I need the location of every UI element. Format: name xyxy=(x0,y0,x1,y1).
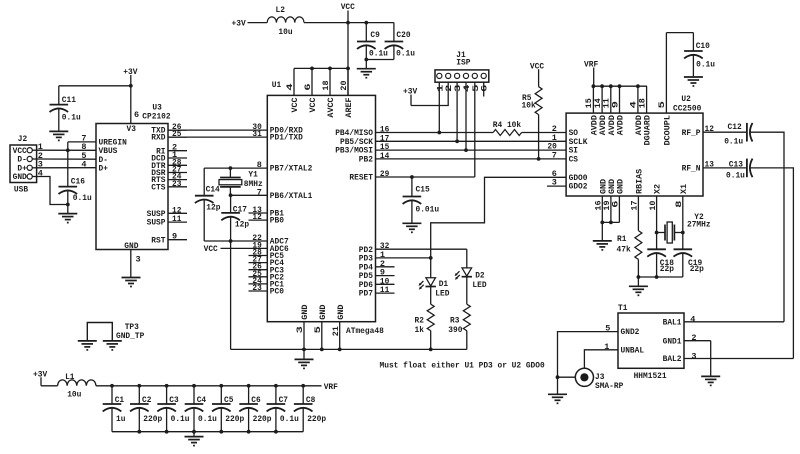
svg-text:6: 6 xyxy=(134,110,139,120)
svg-text:0.1u: 0.1u xyxy=(696,60,715,70)
crystal Y2 xyxy=(657,212,711,243)
svg-text:AVDD: AVDD xyxy=(609,115,617,136)
pin 4 D+ (U3) name xyxy=(81,160,108,174)
pin 6 GDO0 (U2) xyxy=(552,169,588,183)
node C9 bottom junction xyxy=(364,58,368,62)
capacitor C16 xyxy=(59,150,92,213)
capacitor C19 xyxy=(674,249,704,277)
node Y2 rail junctions xyxy=(637,275,659,279)
capacitor C12 xyxy=(724,122,752,146)
node J1.1 junction xyxy=(437,131,441,135)
svg-text:C8: C8 xyxy=(306,395,315,405)
svg-text:5: 5 xyxy=(659,101,667,109)
svg-text:HHM1521: HHM1521 xyxy=(634,371,667,381)
svg-text:GND: GND xyxy=(13,172,27,182)
node C7 top junction xyxy=(274,384,278,388)
transformer T1 box (HHM1521) xyxy=(618,313,684,368)
svg-text:PC0: PC0 xyxy=(270,287,284,297)
pin 2 GND1 (T1) xyxy=(663,333,697,346)
wire XTAL2 net xyxy=(204,168,267,196)
node bypass rail junctions xyxy=(137,430,277,434)
svg-text:5: 5 xyxy=(473,84,481,92)
wire C12 to BAL1 xyxy=(750,132,784,322)
svg-text:PD7: PD7 xyxy=(359,289,373,299)
pin 17 RBIAS (U2) bottom xyxy=(632,168,645,210)
svg-text:VRF: VRF xyxy=(584,60,598,70)
node PD3-GDO0-D1 junction xyxy=(429,256,433,260)
wire VBUS net (J2.1 - U3.8) xyxy=(37,149,96,151)
svg-text:10u: 10u xyxy=(67,390,81,400)
svg-text:C9: C9 xyxy=(370,30,379,40)
pin 7 PB6/XTAL1 (U1) xyxy=(257,187,313,201)
pin 5 GND2 (T1) xyxy=(605,324,639,338)
pin 14 AVDD (U2) top xyxy=(595,86,608,135)
node VBUS junction xyxy=(66,148,70,152)
pin 5 GND (U1) bottom xyxy=(315,304,328,349)
pin 30 PD0/RXD (U1) xyxy=(252,122,302,136)
pin 9 AVDD (U2) top xyxy=(612,86,625,135)
wire +3V to L2 xyxy=(248,22,268,24)
svg-text:1: 1 xyxy=(437,84,445,92)
label U3 pin V3 name xyxy=(127,124,136,134)
pin 25 PC2 (U1) xyxy=(249,269,285,283)
node top bus junctions xyxy=(310,67,350,71)
power VRF (rail) xyxy=(324,382,338,392)
pin 20 AREF (U1) top xyxy=(341,68,354,117)
wire D- net xyxy=(37,158,96,160)
svg-text:CC2500: CC2500 xyxy=(673,104,701,114)
connector J1 box (ISP) xyxy=(435,50,489,82)
svg-text:7: 7 xyxy=(552,151,557,161)
capacitor C20 xyxy=(385,23,415,60)
pin 13 PB1 (U1) xyxy=(249,205,285,219)
node R5 to CS junction xyxy=(537,157,541,161)
svg-text:GND: GND xyxy=(302,304,310,319)
wire PD3 net xyxy=(376,257,431,259)
svg-text:C2: C2 xyxy=(142,395,151,405)
svg-text:11: 11 xyxy=(172,214,181,224)
resistor R1 (RBIAS) xyxy=(617,196,642,277)
pin 9 PD5 (U1) xyxy=(359,268,395,282)
svg-text:1: 1 xyxy=(604,342,609,352)
pin 21 GND (U1) bottom xyxy=(333,304,346,349)
capacitor C2 xyxy=(130,386,162,432)
wire U1 VCC top bus xyxy=(294,67,348,69)
svg-text:GND_TP: GND_TP xyxy=(116,331,144,341)
svg-text:PB0: PB0 xyxy=(270,216,284,226)
pin 1 (J1) xyxy=(437,73,446,92)
wire J1.4 to MOSI xyxy=(465,82,467,150)
svg-text:0.1u: 0.1u xyxy=(724,136,743,146)
svg-text:4: 4 xyxy=(287,83,295,91)
pin 5 D- (U3) name xyxy=(81,151,108,165)
pin 6 GND (U2) bottom xyxy=(613,179,626,208)
svg-text:22p: 22p xyxy=(690,264,704,274)
svg-text:2: 2 xyxy=(446,84,454,92)
label U1 refdes xyxy=(272,80,281,90)
wire D+ net xyxy=(37,167,96,169)
wire GND2 route xyxy=(558,332,619,378)
capacitor C5 xyxy=(212,386,244,432)
wire J1.6 stub xyxy=(483,82,485,96)
inductor L2 xyxy=(267,5,304,37)
node AVDD bus junctions xyxy=(592,84,640,88)
capacitor C17 xyxy=(221,195,249,241)
power VCC (top) xyxy=(341,2,355,23)
svg-text:220p: 220p xyxy=(307,414,326,424)
svg-text:14: 14 xyxy=(595,98,603,108)
svg-text:+3V: +3V xyxy=(232,19,247,29)
wire U1 ground rail xyxy=(231,348,467,350)
pin 28 PC5 (U1) xyxy=(249,248,285,262)
svg-text:C17: C17 xyxy=(233,204,247,214)
svg-text:11: 11 xyxy=(604,98,612,108)
svg-text:GND1: GND1 xyxy=(663,336,682,346)
node C6 top junction xyxy=(247,384,251,388)
pin 25 RXD (U3) stub xyxy=(151,129,187,143)
pin 2 D- (J2) xyxy=(17,151,43,165)
svg-text:0.1u: 0.1u xyxy=(198,414,217,424)
resistor R2 xyxy=(415,287,435,349)
svg-text:C20: C20 xyxy=(396,30,410,40)
svg-text:0.1u: 0.1u xyxy=(171,414,190,424)
ground (U2 GND pins) xyxy=(593,241,612,250)
pin 12 SUSP (U3) stub xyxy=(147,205,187,219)
svg-text:9: 9 xyxy=(172,232,177,242)
node GND2/J3 junction xyxy=(556,375,560,379)
connector J2 box xyxy=(10,134,37,195)
pin 3 D+ (J2) xyxy=(17,160,43,174)
svg-text:RESET: RESET xyxy=(349,173,373,183)
ground (U1) xyxy=(295,349,314,368)
wire U2 GND pins xyxy=(602,196,619,241)
svg-text:DCOUPL: DCOUPL xyxy=(665,115,673,146)
svg-text:10u: 10u xyxy=(278,27,292,37)
pin 6 (J1) xyxy=(481,73,490,92)
op-amp U1 box (ATmega48) xyxy=(267,95,375,321)
wire X2 down xyxy=(656,196,658,249)
wire +3V to J1.2 xyxy=(411,82,448,105)
svg-text:18: 18 xyxy=(639,98,647,108)
power +3V (L2 input) xyxy=(232,19,247,29)
svg-text:L2: L2 xyxy=(276,5,285,15)
svg-text:VRF: VRF xyxy=(324,382,338,392)
wire PD2 net to D2 xyxy=(376,249,467,268)
node U2 GND junctions xyxy=(600,221,612,225)
svg-text:6: 6 xyxy=(482,84,490,92)
svg-text:10k: 10k xyxy=(522,101,536,111)
svg-text:SUSP: SUSP xyxy=(147,218,166,228)
svg-text:PB7/XTAL2: PB7/XTAL2 xyxy=(270,164,313,174)
svg-text:RXD: RXD xyxy=(151,133,165,143)
svg-text:T1: T1 xyxy=(618,303,627,313)
wire MISO net (R4 - U2.SO) xyxy=(522,132,567,134)
svg-text:12p: 12p xyxy=(235,220,249,230)
pin 15 PB3/MOSI (U1) xyxy=(335,142,389,156)
svg-text:PB2: PB2 xyxy=(359,155,373,165)
wire C20 bottom to C9 ground xyxy=(366,59,394,61)
node VCC junction xyxy=(346,21,350,25)
pin 23 PC0 (U1) xyxy=(249,283,285,297)
pin 6 VCC (U1) top xyxy=(305,68,318,112)
wire bypass ground rail xyxy=(112,431,303,433)
inductor L1 xyxy=(58,372,96,400)
resistor R3 xyxy=(448,277,470,349)
pin 19 GND (U2) bottom xyxy=(604,179,617,211)
svg-text:21: 21 xyxy=(333,326,341,336)
pin 1 SCLK (U2) xyxy=(552,133,589,147)
svg-text:GND: GND xyxy=(618,179,626,194)
capacitor C9 xyxy=(357,23,388,69)
svg-text:5: 5 xyxy=(315,326,323,334)
pin 29 RESET (U1) xyxy=(349,169,389,183)
svg-text:0.1u: 0.1u xyxy=(369,48,388,58)
capacitor C18 xyxy=(647,249,674,277)
capacitor C6 xyxy=(239,386,271,432)
ground (TP3 left) xyxy=(78,341,97,350)
svg-text:R1: R1 xyxy=(617,234,626,244)
svg-text:V3: V3 xyxy=(127,124,136,134)
wire ADC7 ground net xyxy=(204,240,267,242)
pin 5 (J1) xyxy=(472,73,481,92)
svg-text:RBIAS: RBIAS xyxy=(637,168,645,194)
wire to J3 xyxy=(558,376,576,378)
svg-text:0.1u: 0.1u xyxy=(280,414,299,424)
svg-text:SMA-RP: SMA-RP xyxy=(595,381,623,391)
pin 16 GND (U2) bottom xyxy=(596,179,609,211)
svg-text:C11: C11 xyxy=(62,95,76,105)
svg-text:C1: C1 xyxy=(115,395,124,405)
svg-text:3: 3 xyxy=(297,326,305,334)
node C9 top junction xyxy=(364,21,368,25)
power +3V (to U3 V3) xyxy=(123,67,138,86)
label T1 refdes xyxy=(618,303,667,381)
wire UNBAL route xyxy=(584,350,618,368)
wire rail to ground xyxy=(193,432,195,437)
svg-text:C4: C4 xyxy=(197,395,206,405)
capacitor C7 xyxy=(267,386,299,432)
pin 1 UNBAL (T1) xyxy=(604,342,644,355)
svg-text:UNBAL: UNBAL xyxy=(621,345,645,355)
pin 12 RF_P (U2) xyxy=(682,124,714,138)
svg-text:1u: 1u xyxy=(116,414,125,424)
pin 26 TXD (U3) stub xyxy=(151,122,187,136)
wire L2 to VCC node xyxy=(304,22,348,24)
wire VRF rail xyxy=(96,385,322,387)
pin 16 PB4/MISO (U1) xyxy=(335,125,389,139)
resistor R4 xyxy=(493,120,522,135)
capacitor C15 xyxy=(403,177,440,223)
svg-text:GND: GND xyxy=(600,179,608,194)
node C5 top junction xyxy=(219,384,223,388)
node ground rail junctions xyxy=(302,348,433,352)
power VCC (R5) xyxy=(530,61,544,71)
pin 11 SUSP (U3) stub xyxy=(147,214,187,228)
pin 3 GDO2 (U2) xyxy=(552,178,588,192)
svg-text:1k: 1k xyxy=(415,325,424,335)
svg-text:RF_N: RF_N xyxy=(682,164,701,174)
pin 7 CS (U2) xyxy=(552,151,578,165)
capacitor C8 xyxy=(294,386,326,432)
svg-text:CP2102: CP2102 xyxy=(142,111,170,121)
label U2 refdes xyxy=(673,94,701,113)
svg-text:C12: C12 xyxy=(728,122,742,132)
wire J1.1 to MISO xyxy=(438,82,440,132)
wire RF_P to C12 xyxy=(703,131,747,133)
svg-text:GDO2: GDO2 xyxy=(569,182,588,192)
pin 27 PC4 (U1) xyxy=(249,255,285,269)
wire DCOUPL to C10 xyxy=(666,32,693,34)
wire XTAL1 net xyxy=(231,194,268,196)
pin 4 GND (J2) xyxy=(13,168,43,182)
pin 1 VCC (J2) xyxy=(13,142,43,156)
test point TP3 xyxy=(87,322,144,341)
pin 3 (J1) xyxy=(455,73,464,92)
svg-text:AVDD: AVDD xyxy=(592,115,600,136)
svg-text:AVCC: AVCC xyxy=(328,97,336,118)
pin 24 PC1 (U1) xyxy=(249,276,285,290)
svg-text:220p: 220p xyxy=(143,414,162,424)
wire AVDD top bus xyxy=(594,85,647,87)
wire J1.3 to SCK xyxy=(456,82,458,141)
svg-text:C10: C10 xyxy=(696,41,710,51)
svg-text:VCC: VCC xyxy=(292,97,300,112)
svg-text:AVDD: AVDD xyxy=(618,115,626,136)
pin 10 X2 (U2) bottom xyxy=(650,184,663,211)
svg-text:18: 18 xyxy=(323,80,331,90)
svg-text:3: 3 xyxy=(455,84,463,92)
node +3V junction xyxy=(129,84,133,88)
note text xyxy=(380,360,545,370)
svg-text:C5: C5 xyxy=(224,395,233,405)
capacitor C14 xyxy=(195,184,221,241)
diode D2 (LED) xyxy=(455,268,487,290)
node C1 top junction xyxy=(110,384,114,388)
svg-text:LED: LED xyxy=(472,280,486,290)
pin 32 PD2 (U1) xyxy=(359,241,390,255)
pin 8 VBUS (U3) name xyxy=(81,142,117,156)
pin 3 GND (U3) wire xyxy=(131,250,141,278)
svg-text:C14: C14 xyxy=(206,184,220,194)
ground (T1 GND1) xyxy=(701,376,720,385)
svg-text:GND: GND xyxy=(609,179,617,194)
pin 3 BAL2 (T1) xyxy=(663,351,697,364)
label U3 refdes xyxy=(142,102,170,121)
pin 28 DTR (U3) stub xyxy=(151,157,187,171)
pin 10 PD6 (U1) xyxy=(359,276,395,290)
svg-text:0.01u: 0.01u xyxy=(416,204,440,214)
svg-text:AVDD: AVDD xyxy=(600,115,608,136)
wire GDO2 stub xyxy=(547,185,566,187)
wire BAL1 net xyxy=(684,321,784,323)
node J1.4 junction xyxy=(464,148,468,152)
svg-text:220p: 220p xyxy=(225,414,244,424)
wire GND2 to ground xyxy=(557,377,559,394)
pin 18 DGUARD (U2) top xyxy=(639,86,652,145)
node C2 top junction xyxy=(137,384,141,388)
pin 8 PB7/XTAL2 (U1) xyxy=(257,160,313,174)
ground (U3 pin3) xyxy=(122,278,141,287)
svg-text:C6: C6 xyxy=(251,395,260,405)
svg-text:BAL1: BAL1 xyxy=(663,317,682,327)
svg-text:ATmega48: ATmega48 xyxy=(346,326,384,336)
svg-text:47k: 47k xyxy=(617,244,631,254)
svg-text:220p: 220p xyxy=(253,414,272,424)
wire MISO net (U1.16 - R4) xyxy=(376,132,494,134)
svg-text:2: 2 xyxy=(691,333,696,343)
pin 2 SO (U2) xyxy=(552,124,578,138)
svg-text:X2: X2 xyxy=(655,184,663,194)
node J1.3 junction xyxy=(455,139,459,143)
svg-text:12p: 12p xyxy=(206,203,220,213)
node Y2 junctions xyxy=(655,231,685,235)
pin 23 CTS (U3) stub xyxy=(151,179,187,193)
svg-text:0.1u: 0.1u xyxy=(73,193,92,203)
power VCC (ADC6) xyxy=(204,244,218,254)
svg-text:GND2: GND2 xyxy=(621,327,640,337)
pin 14 PB2 (U1) xyxy=(359,151,390,165)
svg-text:C13: C13 xyxy=(729,160,743,170)
ground (C10) xyxy=(684,77,703,86)
svg-text:D+: D+ xyxy=(99,163,108,173)
capacitor C4 xyxy=(185,386,217,432)
svg-text:VCC: VCC xyxy=(204,244,218,254)
wire MOSI net xyxy=(376,149,567,151)
capacitor C1 xyxy=(103,386,126,432)
wire RXD net (U3.25 - U1.31) xyxy=(168,136,267,138)
pin 2 RI (U3) stub xyxy=(156,143,187,157)
node C4 top junction xyxy=(192,384,196,388)
svg-text:J2: J2 xyxy=(18,134,27,144)
wire VCC to ADC6 xyxy=(221,247,268,249)
pin 4 (J1) xyxy=(463,73,472,92)
svg-text:Must float either U1 PD3 or U2: Must float either U1 PD3 or U2 GDO0 xyxy=(380,360,545,370)
pin 11 PD7 (U1) xyxy=(359,285,395,299)
svg-text:C16: C16 xyxy=(71,177,85,187)
svg-text:0.1u: 0.1u xyxy=(726,170,745,180)
pin 26 PC3 (U1) xyxy=(249,262,285,276)
pin 18 AVCC (U1) top xyxy=(323,68,336,117)
svg-text:AREF: AREF xyxy=(346,97,354,118)
wire UREGIN to VBUS xyxy=(68,142,96,150)
label ATmega48 xyxy=(346,326,384,336)
capacitor C3 xyxy=(157,386,189,432)
pin 12 PB0 (U1) xyxy=(249,212,285,226)
wire +3V to L1 xyxy=(41,385,58,387)
ground (TP3 right) xyxy=(103,341,122,350)
svg-text:0.1u: 0.1u xyxy=(62,112,81,122)
connector J3 (SMA-RP) xyxy=(575,368,623,391)
wire cap-ground down to rail xyxy=(230,241,232,349)
pin 2 PD4 (U1) xyxy=(359,259,395,273)
svg-text:U1: U1 xyxy=(272,80,281,90)
wire Y2 ground rail xyxy=(638,277,682,286)
wire VCC to C9 C20 xyxy=(348,22,394,24)
wire SCK net xyxy=(376,140,567,142)
ground (bypass rail) xyxy=(185,437,204,446)
svg-text:RST: RST xyxy=(151,235,165,245)
wire J2 GND pin 4 route xyxy=(37,177,68,205)
ground (C15) xyxy=(402,223,421,232)
op-amp U2 box (CC2500) xyxy=(566,113,703,196)
svg-text:0.1u: 0.1u xyxy=(396,48,415,58)
svg-text:PB6/XTAL1: PB6/XTAL1 xyxy=(270,191,313,201)
svg-text:L1: L1 xyxy=(65,372,74,382)
capacitor C13 xyxy=(726,159,753,181)
wire CS net xyxy=(376,158,567,160)
pin 4 AVDD (U2) top xyxy=(631,86,644,135)
pin 1 PD3 (U1) xyxy=(359,250,385,264)
